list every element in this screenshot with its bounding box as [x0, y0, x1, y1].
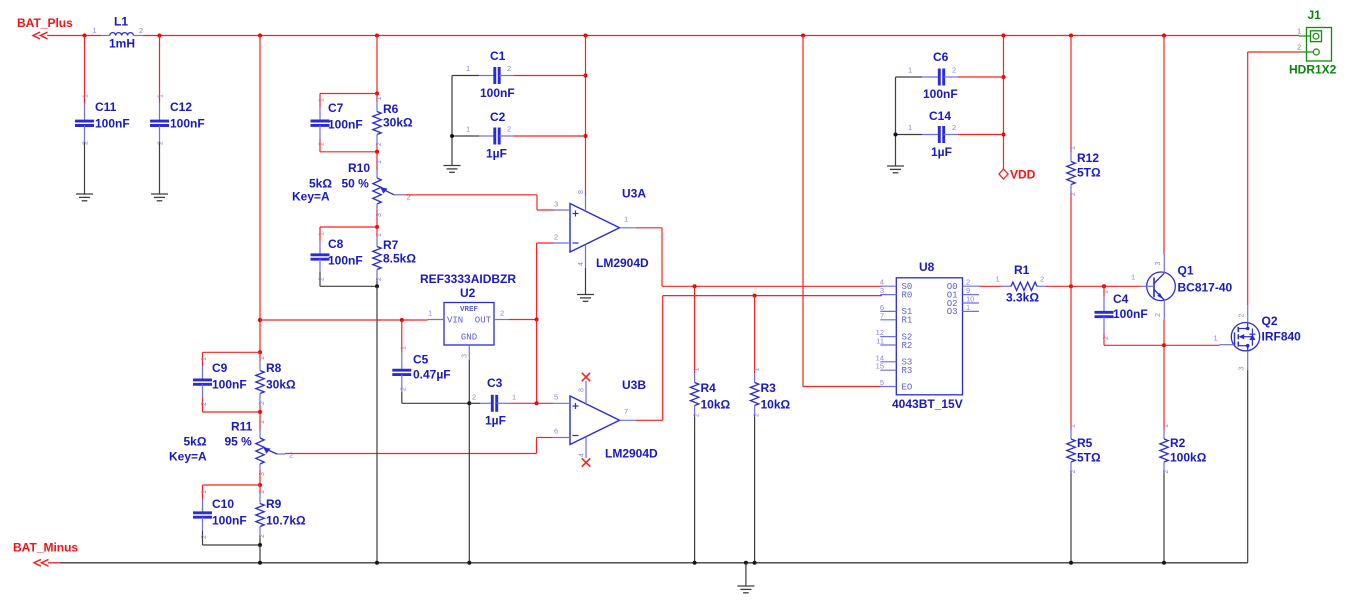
junction top bus / Q1 collector: [1162, 34, 1166, 38]
junction top bus / R12 rail: [1069, 34, 1073, 38]
label R2: [1170, 436, 1186, 450]
capacitor C14: [896, 126, 1004, 143]
pin 6 U3B: [554, 427, 558, 436]
junction top bus / C11: [83, 34, 87, 38]
pin 1 R1: [996, 275, 1000, 284]
svg-text:Q1: Q1: [1178, 264, 1194, 278]
svg-text:HDR1X2: HDR1X2: [1289, 63, 1337, 77]
pin 2 C2: [507, 125, 511, 134]
pin 1 U3A: [624, 215, 628, 224]
wire C10 bottom: [203, 531, 261, 545]
label C1: [490, 49, 506, 63]
svg-text:1: 1: [908, 66, 912, 75]
pin 2 C1: [507, 64, 511, 73]
svg-text:REF3333AIDBZR: REF3333AIDBZR: [420, 272, 516, 286]
wire C10 top: [203, 485, 261, 499]
svg-text:2: 2: [407, 193, 411, 202]
capacitor C11: [75, 103, 94, 142]
pin 1 R4: [694, 368, 701, 372]
junction C6 right: [1002, 75, 1006, 79]
svg-text:2: 2: [1040, 275, 1044, 284]
junction R8 top: [258, 350, 262, 354]
svg-text:11: 11: [876, 337, 884, 346]
svg-text:1: 1: [1163, 424, 1170, 428]
resistor R8: [256, 352, 264, 412]
transistor Q1: [1141, 254, 1176, 319]
wire R2 bottom: [1163, 472, 1165, 563]
svg-text:2: 2: [139, 26, 143, 35]
value R10 50 %: [342, 177, 370, 191]
wire U3B output: [636, 296, 882, 421]
svg-text:100nF: 100nF: [1113, 307, 1148, 321]
junction R7 bottom GND net: [375, 284, 379, 288]
pin 5 U3B: [554, 393, 558, 402]
resistor R12: [1067, 152, 1075, 194]
svg-text:3.3kΩ: 3.3kΩ: [1006, 291, 1039, 305]
capacitor C6: [896, 69, 1004, 86]
svg-text:U2: U2: [460, 286, 476, 300]
pin 4 U3A: [578, 262, 585, 266]
pin 2 C8: [319, 277, 326, 281]
ic U8 4043BT: [880, 278, 979, 395]
pin 2 C7: [319, 142, 326, 146]
resistor R6: [373, 94, 381, 152]
svg-text:100nF: 100nF: [170, 117, 205, 131]
svg-text:R6: R6: [383, 102, 399, 116]
svg-text:100nF: 100nF: [212, 514, 247, 528]
svg-text:C3: C3: [487, 376, 503, 390]
svg-text:100nF: 100nF: [95, 117, 130, 131]
label Q1: [1178, 264, 1194, 278]
junction R8 bottom / R11 top: [258, 410, 262, 414]
label U8 S2: [902, 332, 913, 342]
junction Q1 emitter / C4 / Q2 gate: [1162, 343, 1166, 347]
wire C5 bottom to GND node: [402, 402, 470, 404]
pin 5 U8: [880, 378, 884, 387]
pin 1 C9: [201, 357, 208, 361]
wire R1 to Q1 base: [1046, 285, 1141, 287]
pin 2 J1: [1297, 43, 1301, 52]
junction R3 top: [753, 294, 757, 298]
potentiometer R11: [256, 412, 285, 485]
pin 2 R9: [259, 534, 266, 538]
wire bus to R6: [376, 36, 378, 94]
svg-text:VREF: VREF: [460, 306, 479, 314]
potentiometer R10: [373, 152, 403, 227]
svg-text:8.5kΩ: 8.5kΩ: [383, 252, 416, 266]
svg-text:3: 3: [1239, 367, 1246, 371]
svg-text:R11: R11: [231, 420, 253, 434]
value C8 100nF: [328, 254, 363, 268]
pin 2 C12: [158, 141, 165, 145]
svg-text:R8: R8: [266, 361, 282, 375]
pin 11 U8: [876, 337, 884, 346]
svg-text:1: 1: [428, 309, 432, 318]
capacitor C10: [193, 499, 212, 531]
svg-text:4: 4: [579, 453, 586, 457]
no-connect X U3B pin4: [582, 458, 590, 466]
pin 3 Q1: [1155, 262, 1162, 266]
svg-text:3: 3: [259, 472, 266, 476]
svg-text:8: 8: [578, 190, 585, 194]
svg-text:1: 1: [1297, 27, 1301, 36]
svg-text:C4: C4: [1113, 292, 1129, 306]
capacitor C1: [452, 67, 586, 84]
pin 1 C14: [908, 123, 912, 132]
wire R3 bottom: [754, 415, 756, 563]
wire C1 C2 left rail: [451, 76, 453, 166]
svg-text:1: 1: [908, 123, 912, 132]
svg-text:O3: O3: [947, 307, 958, 317]
pin 1 C7: [319, 98, 326, 102]
pin 1 C12: [158, 94, 165, 98]
label R3: [761, 381, 777, 395]
label C9: [212, 361, 228, 375]
value C11 100nF: [95, 117, 130, 131]
svg-text:R1: R1: [902, 316, 913, 326]
svg-text:95 %: 95 %: [225, 435, 253, 449]
svg-text:VIN: VIN: [447, 316, 463, 326]
value C10 100nF: [212, 514, 247, 528]
resistor R9: [256, 485, 264, 545]
power VDD symbol: [999, 169, 1008, 179]
label VDD: [1010, 168, 1036, 182]
label R9: [266, 497, 282, 511]
pin 2 R11: [289, 451, 293, 460]
svg-text:1: 1: [319, 98, 326, 102]
wire C11 top: [84, 36, 86, 104]
svg-text:2: 2: [500, 309, 504, 318]
svg-text:1µF: 1µF: [931, 145, 952, 159]
svg-text:10.7kΩ: 10.7kΩ: [266, 514, 306, 528]
svg-text:1: 1: [624, 215, 628, 224]
label C7: [328, 101, 344, 115]
pin 1 R9: [259, 490, 266, 494]
svg-text:1: 1: [996, 275, 1000, 284]
wire to U3B pin5: [537, 402, 554, 404]
svg-text:100nF: 100nF: [212, 378, 247, 392]
pin 2 R7: [376, 277, 383, 281]
junction top bus / C1C2 rail: [584, 34, 588, 38]
pin 2 C9: [201, 402, 208, 406]
wire C8 bottom: [320, 272, 377, 286]
label U8 O1: [947, 290, 958, 300]
wire VDD rail: [1003, 36, 1005, 170]
label U2 VREF: [460, 306, 479, 314]
svg-text:1: 1: [376, 233, 383, 237]
svg-text:2: 2: [158, 141, 165, 145]
svg-text:2: 2: [694, 413, 701, 417]
pin 3 U2: [462, 354, 469, 358]
svg-text:OUT: OUT: [475, 316, 492, 326]
svg-text:2: 2: [952, 66, 956, 75]
label J1: [1308, 8, 1322, 22]
junction C2 right: [584, 134, 588, 138]
pin 6 U8: [880, 303, 884, 312]
junction U2 OUT / U3A pin2 rail: [535, 318, 539, 322]
ground C12: [151, 194, 168, 201]
svg-text:6: 6: [554, 427, 558, 436]
svg-text:100kΩ: 100kΩ: [1170, 451, 1207, 465]
svg-text:EO: EO: [902, 382, 913, 392]
wire Q2 drain up to J1 pin2: [1248, 52, 1299, 305]
label R10: [348, 161, 370, 175]
ground bottom bus: [737, 563, 754, 593]
value R11 95 %: [225, 435, 253, 449]
wire bus to R12: [1070, 36, 1072, 153]
value R3 10k: [761, 398, 791, 412]
svg-text:2: 2: [1239, 314, 1246, 318]
capacitor C5: [392, 320, 411, 403]
junction U2 VIN tap: [258, 318, 262, 322]
value R8 30k: [266, 378, 296, 392]
svg-text:R1: R1: [1014, 263, 1030, 277]
resistor R2: [1160, 430, 1168, 472]
label U3B: [622, 378, 646, 392]
pin 2 R2: [1163, 470, 1170, 474]
junction R4 top: [693, 284, 697, 288]
wire top bus BAT_Plus rail: [47, 35, 1299, 37]
svg-text:Key=A: Key=A: [292, 190, 330, 204]
junction C3 left GND: [467, 401, 471, 405]
wire C9 top: [203, 352, 261, 366]
pin 2 R12: [1070, 192, 1077, 196]
svg-text:3: 3: [554, 200, 558, 209]
capacitor C12: [150, 103, 169, 142]
svg-text:1: 1: [401, 346, 408, 350]
svg-text:2: 2: [83, 141, 90, 145]
capacitor C2: [452, 128, 586, 145]
pin 2 C10: [201, 535, 208, 539]
value C1 100nF: [480, 86, 515, 100]
pin 3 Q2: [1239, 367, 1246, 371]
junction top bus / R6 chain: [375, 34, 379, 38]
pin 8 U3A: [578, 190, 585, 194]
wire C11 to ground: [84, 142, 86, 194]
svg-text:C9: C9: [212, 361, 228, 375]
value R9 10.7k: [266, 514, 306, 528]
svg-text:1: 1: [966, 303, 970, 312]
label L1: [114, 15, 128, 29]
pin 3 R11: [259, 472, 266, 476]
svg-text:1: 1: [319, 232, 326, 236]
BAT_Minus port arrow: [34, 559, 49, 566]
svg-text:8: 8: [579, 388, 586, 392]
pin 1 U8 right: [966, 303, 970, 312]
svg-text:VDD: VDD: [1010, 168, 1036, 182]
svg-text:LM2904D: LM2904D: [596, 256, 649, 270]
svg-text:C6: C6: [933, 50, 949, 64]
svg-text:R9: R9: [266, 497, 282, 511]
junction C5 top: [400, 318, 404, 322]
label R7: [383, 238, 399, 252]
label C8: [328, 237, 344, 251]
svg-text:U3B: U3B: [622, 378, 646, 392]
pin 1 R6: [376, 97, 383, 101]
pin 1 C10: [201, 490, 208, 494]
pin 10 U8 right: [966, 295, 974, 304]
value J1 HDR1X2: [1289, 63, 1337, 77]
svg-text:2: 2: [376, 277, 383, 281]
wire Q1 emitter down: [1163, 319, 1165, 429]
connector J1: [1299, 28, 1332, 62]
label U8 S1: [902, 307, 913, 317]
pin 2 C14: [952, 123, 956, 132]
label R6: [383, 102, 399, 116]
pin 3 U8: [880, 286, 884, 295]
svg-text:1: 1: [376, 160, 383, 164]
wire U3A pin2 net: [537, 243, 554, 320]
svg-text:C8: C8: [328, 237, 344, 251]
pin 2 R4: [694, 413, 701, 417]
pin 9 U8 right: [966, 286, 970, 295]
pin 3 R10: [376, 213, 383, 217]
svg-text:2: 2: [754, 413, 761, 417]
label C4: [1113, 292, 1129, 306]
label R12: [1077, 151, 1099, 165]
label U8 R1: [902, 316, 913, 326]
pin 2 U8 right: [966, 278, 970, 287]
svg-text:5kΩ: 5kΩ: [309, 177, 332, 191]
value R6 30k: [383, 116, 413, 130]
pin 12 U8: [876, 328, 884, 337]
svg-text:1: 1: [201, 357, 208, 361]
svg-text:10kΩ: 10kΩ: [761, 398, 791, 412]
value C9 100nF: [212, 378, 247, 392]
svg-text:Q2: Q2: [1262, 314, 1278, 328]
pin 2 L1: [139, 26, 143, 35]
wire C12 top: [159, 36, 161, 104]
svg-text:C2: C2: [490, 110, 506, 124]
wire bottom bus GND rail: [60, 562, 1248, 564]
svg-text:2: 2: [1070, 192, 1077, 196]
junction C1 right: [584, 74, 588, 78]
label U8 R3: [902, 366, 913, 376]
svg-text:1: 1: [1103, 290, 1110, 294]
pin 1 C4: [1103, 290, 1110, 294]
pin 4 U8: [880, 278, 884, 287]
wire R7 to bottom bus: [376, 286, 378, 563]
svg-text:2: 2: [1070, 470, 1077, 474]
junction top bus / EO feed: [801, 34, 805, 38]
label R8: [266, 361, 282, 375]
svg-text:1µF: 1µF: [486, 147, 507, 161]
value R2 100k: [1170, 451, 1207, 465]
svg-text:1: 1: [1070, 424, 1077, 428]
svg-text:30kΩ: 30kΩ: [383, 116, 413, 130]
value C6 100nF: [923, 87, 958, 101]
svg-text:Key=A: Key=A: [169, 450, 207, 464]
value R4 10k: [701, 398, 731, 412]
pin 2 C11: [83, 141, 90, 145]
pin 7 U8: [880, 311, 884, 320]
svg-text:GND: GND: [461, 333, 477, 343]
junction C4 tap: [1102, 284, 1106, 288]
svg-text:4: 4: [578, 262, 585, 266]
ground C11: [76, 194, 93, 201]
svg-text:1: 1: [754, 368, 761, 372]
pin 2 R10: [407, 193, 411, 202]
svg-text:5TΩ: 5TΩ: [1077, 166, 1101, 180]
svg-text:R5: R5: [1077, 436, 1093, 450]
svg-text:2: 2: [319, 142, 326, 146]
label U3A: [622, 187, 646, 201]
pin 7 U3B: [624, 407, 628, 416]
wire R3 top: [754, 296, 756, 373]
wire EO feed: [803, 36, 882, 387]
resistor R4: [690, 373, 698, 415]
svg-text:C7: C7: [328, 101, 344, 115]
svg-text:4043BT_15V: 4043BT_15V: [892, 397, 963, 411]
label U2 OUT: [475, 316, 492, 326]
pin 1 R12: [1070, 146, 1077, 150]
label C14: [929, 109, 951, 123]
value C5 0.47uF: [413, 368, 451, 382]
svg-text:5kΩ: 5kΩ: [184, 435, 207, 449]
svg-text:1: 1: [259, 490, 266, 494]
svg-text:30kΩ: 30kΩ: [266, 378, 296, 392]
svg-text:2: 2: [1297, 43, 1301, 52]
svg-text:50 %: 50 %: [342, 177, 370, 191]
svg-text:U3A: U3A: [622, 187, 646, 201]
svg-text:1: 1: [1070, 146, 1077, 150]
value U3B LM2904D: [605, 447, 658, 461]
svg-text:1: 1: [259, 420, 266, 424]
pin 1 C6: [908, 66, 912, 75]
value R12 5T: [1077, 166, 1101, 180]
no-connect X U3B pin8: [582, 373, 590, 381]
pin 2 R6: [376, 142, 383, 146]
pin 1 J1: [1297, 27, 1301, 36]
resistor R1: [1002, 282, 1046, 290]
pin 1 U2: [428, 309, 432, 318]
pin 15 U8: [876, 362, 884, 371]
svg-text:1: 1: [1131, 273, 1135, 282]
svg-text:R0: R0: [902, 290, 913, 300]
svg-text:1: 1: [93, 26, 97, 35]
svg-text:C11: C11: [95, 100, 117, 114]
junction bottom bus nodes: [258, 561, 1166, 565]
label R11: [231, 420, 253, 434]
junction top bus / VDD rail: [1002, 34, 1006, 38]
label C10: [212, 497, 234, 511]
svg-text:1: 1: [376, 97, 383, 101]
label U2 GND: [461, 333, 477, 343]
svg-text:BC817-40: BC817-40: [1178, 281, 1233, 295]
svg-text:C5: C5: [413, 353, 429, 367]
wire bus to C1: [585, 36, 587, 197]
svg-text:2: 2: [507, 64, 511, 73]
svg-text:2: 2: [554, 233, 558, 242]
value Q1 BC817-40: [1178, 281, 1233, 295]
svg-text:C1: C1: [490, 49, 506, 63]
label U2 VIN: [447, 316, 463, 326]
capacitor C3: [469, 395, 536, 412]
pin 2 R3: [754, 413, 761, 417]
wire C4 bottom to emitter net: [1104, 344, 1164, 346]
svg-text:2: 2: [952, 123, 956, 132]
capacitor C7: [311, 107, 330, 139]
wire BAT_Minus stub: [48, 562, 60, 564]
svg-text:2: 2: [259, 534, 266, 538]
value C14 1uF: [931, 145, 952, 159]
pin 2 C3: [472, 393, 476, 402]
pin 1 C3: [512, 393, 516, 402]
svg-text:1: 1: [466, 125, 470, 134]
label C2: [490, 110, 506, 124]
label Q2: [1262, 314, 1278, 328]
label U8 S3: [902, 358, 913, 368]
